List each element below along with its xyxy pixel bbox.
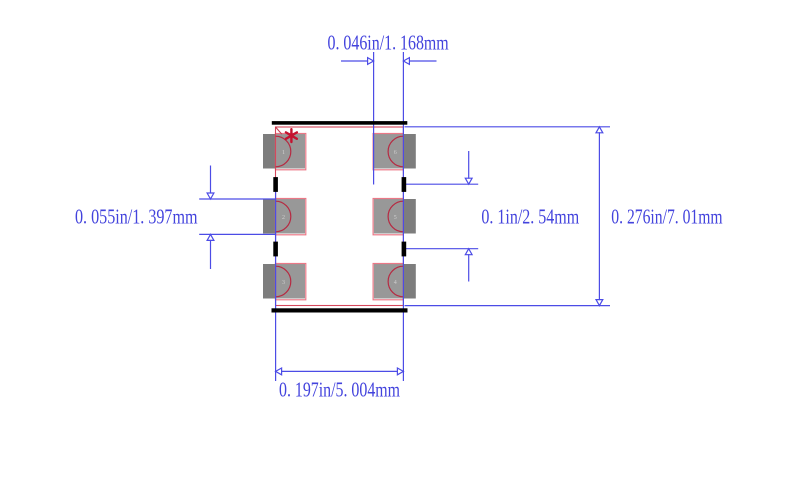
svg-text:5: 5 (394, 215, 397, 221)
pin 1 asterisk marker (286, 129, 297, 142)
pad 3 pin outline rect (276, 264, 306, 300)
pad 1 pin outline rect (276, 134, 306, 170)
dimension 0.1in arrow bottom (465, 249, 472, 282)
silkscreen bar bottom (272, 308, 408, 312)
silkscreen tick right upper (402, 177, 407, 192)
pad 5 pin outline rect (373, 199, 403, 235)
pad 4 pin circle (388, 266, 403, 297)
svg-text:2: 2 (282, 215, 285, 221)
pad 6 (copper, top-right) (374, 134, 416, 169)
svg-text:0. 197in/5. 004mm: 0. 197in/5. 004mm (279, 378, 400, 402)
silkscreen bar top (272, 121, 408, 125)
dimension 0.1in witness line bottom (405, 248, 479, 250)
svg-text:0. 1in/2. 54mm: 0. 1in/2. 54mm (481, 204, 579, 228)
dimension 0.197in witness line left (275, 185, 277, 382)
svg-text:6: 6 (394, 150, 397, 156)
svg-text:0. 046in/1. 168mm: 0. 046in/1. 168mm (328, 31, 449, 55)
pad 6 pin outline rect (373, 134, 403, 170)
pad 4 (copper, bottom-right) (374, 264, 416, 299)
pad 3 (copper, bottom-left) (263, 264, 305, 299)
dimension 0.276in witness line top (405, 126, 611, 128)
svg-text:1: 1 (282, 150, 285, 156)
dimension 0.046in arrow line left (341, 58, 374, 65)
dimension 0.055in witness line top (199, 198, 275, 200)
pad 1 pin circle (276, 136, 291, 167)
pad 5 pin circle (388, 201, 403, 232)
pad 3 pin circle (276, 266, 291, 297)
pad 2 (copper, mid-left) (263, 199, 305, 234)
silkscreen tick left lower (273, 242, 278, 257)
dimension 0.055in witness line bottom (199, 233, 275, 235)
pad 6 pin circle (388, 136, 403, 167)
dimension 0.1in arrow top (465, 151, 472, 184)
dimension 0.046in arrow line right (403, 58, 436, 65)
pin 1 chamfer mark (276, 127, 282, 134)
dimension 0.055in arrow top (207, 166, 214, 200)
pad 5 (copper, mid-right) (374, 199, 416, 234)
silkscreen tick right lower (402, 242, 407, 257)
svg-text:4: 4 (394, 280, 397, 286)
dimension 0.197in dim line with arrows (276, 368, 404, 375)
pad 2 pin circle (276, 201, 291, 232)
pad 4 pin outline rect (373, 264, 403, 300)
svg-text:0. 276in/7. 01mm: 0. 276in/7. 01mm (611, 204, 722, 228)
dimension 0.1in witness line top (405, 183, 479, 185)
dimension 0.046in/1.168mm witness line left (373, 52, 375, 185)
component body outline (276, 127, 404, 306)
svg-text:0. 055in/1. 397mm: 0. 055in/1. 397mm (75, 204, 198, 228)
pad 1 (copper, top-left) (263, 134, 305, 169)
svg-text:3: 3 (282, 280, 285, 286)
silkscreen tick left upper (273, 177, 278, 192)
pad 2 pin outline rect (276, 199, 306, 235)
dimension 0.046in/1.168mm + 0.197in witness line right (shared) (402, 52, 404, 381)
dimension 0.276in witness line bottom (405, 305, 611, 307)
dimension 0.276in vertical dim line with arrows (596, 127, 603, 306)
dimension 0.055in arrow bottom (207, 234, 214, 269)
